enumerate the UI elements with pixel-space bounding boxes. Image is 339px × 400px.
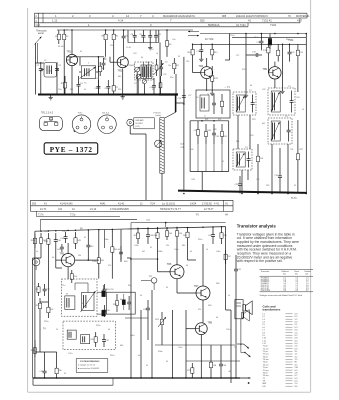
svg-text:05: 05 [140,295,142,297]
svg-text:H4: H4 [225,215,229,217]
svg-text:C28: C28 [213,129,216,131]
svg-text:4: 4 [152,14,154,18]
capacitor C47 [102,334,110,347]
wire [257,144,259,194]
wire [130,126,146,160]
svg-text:0.5: 0.5 [295,316,299,318]
svg-text:04: 04 [118,249,120,251]
svg-text:C3a: C3a [58,89,62,91]
resistor R53b [113,294,118,312]
svg-text:C45a: C45a [174,249,179,251]
svg-text:R4: R4 [104,59,106,61]
svg-text:Telescopic: Telescopic [36,31,48,33]
svg-text:T5 pri: T5 pri [263,366,269,369]
middle parts table frame [31,200,234,216]
svg-text:C30: C30 [296,97,299,99]
wire TR8 emitter [200,335,202,378]
wire TR2 emitter [122,69,124,95]
svg-text:L7: L7 [263,330,266,332]
resistor R59 [34,283,40,296]
wire [88,230,112,254]
wire [246,54,252,56]
svg-text:R55: R55 [36,305,41,307]
trimmer circle [155,140,162,147]
resistor R45 [97,253,105,268]
wire [140,310,142,378]
aerial lead wire [34,43,36,95]
svg-text:C15: C15 [178,98,183,100]
svg-text:C52: C52 [46,289,51,291]
resistor R4 [99,62,106,76]
wire TR5 emitter [67,267,69,279]
svg-text:5005/41A: 5005/41A [208,23,220,27]
model label box PYE-1372 [44,143,97,154]
svg-text:T3 pri: T3 pri [263,355,269,358]
svg-text:C4: C4 [96,78,98,80]
svg-text:C24: C24 [133,53,136,55]
svg-text:C7b: C7b [134,83,137,85]
svg-text:C17: C17 [236,55,239,57]
ground symbol mid [121,95,125,100]
ground symbol right 2 [280,88,284,94]
transformer T5 core [81,335,90,344]
svg-text:Transistor analysis: Transistor analysis [237,224,277,229]
wire [162,310,173,378]
svg-text:(V): (V) [306,273,309,275]
wire TR6 collector [274,62,276,67]
loudspeaker LS2 [242,310,250,322]
svg-text:C9a: C9a [172,39,176,41]
svg-text:R61: R61 [50,309,55,311]
svg-text:04: 04 [52,257,54,259]
svg-text:4 14: 4 14 [118,19,124,23]
screen box ground [148,43,152,50]
svg-text:0.4: 0.4 [295,381,299,383]
socket diagram TO5 label [78,113,83,115]
capacitor C49 [143,300,150,318]
svg-text:8k2: 8k2 [262,123,265,125]
capacitor C19 [252,52,262,58]
diode W1 [103,284,110,296]
svg-text:470: 470 [218,119,221,121]
resistor R8 [165,30,172,57]
svg-text:01: 01 [150,247,152,249]
svg-text:T2 pri: T2 pri [263,350,269,353]
svg-text:920: 920 [200,19,205,23]
svg-text:● voltages see 10 rail: ● voltages see 10 rail [78,364,96,367]
svg-text:SOCKET: SOCKET [135,123,144,125]
transformer T3 secondary core [81,291,96,312]
svg-text:L5a: L5a [168,65,172,67]
oscillator transformer core 2 [147,65,152,79]
svg-text:C42: C42 [194,130,197,132]
svg-text:L4: L4 [263,322,266,324]
svg-text:T2: T2 [249,90,252,92]
svg-text:T2 sec: T2 sec [263,354,269,356]
wire [146,160,162,200]
ground bus extension [159,93,178,95]
svg-text:1a 13,16/11: 1a 13,16/11 [162,202,176,205]
IF transformer T2 can [233,90,256,115]
svg-text:TR6: TR6 [167,263,172,266]
capacitor C51 [234,262,242,278]
volume control VR1 [155,312,166,332]
svg-text:R21: R21 [205,119,208,121]
ground below C16 [199,57,203,62]
svg-text:R54a: R54a [96,325,101,327]
top table row 3 text [35,23,276,27]
svg-text:TR8 OC81D: TR8 OC81D [261,290,271,292]
trimmer C10 [148,30,152,43]
heading Transistor analysis [237,224,277,229]
svg-text:R63: R63 [208,305,211,307]
svg-text:17/30,92: 17/30,92 [202,202,212,205]
svg-text:4k7: 4k7 [138,355,141,357]
svg-text:C10: C10 [150,49,153,51]
svg-text:L2: L2 [263,316,266,318]
svg-text:R15: R15 [192,179,195,181]
thick feed to tuner [175,95,177,113]
resistor R58 [209,358,217,372]
svg-text:L5: L5 [165,62,168,64]
svg-text:C43: C43 [90,246,95,248]
svg-text:TL74: TL74 [291,197,297,200]
page left edge [27,8,29,392]
wire TR1 emitter [71,66,73,95]
wire [56,248,62,268]
wire TR1 collector [71,30,73,54]
wire [127,258,131,378]
transistor TR2 [117,57,128,73]
resistor R12 [211,66,219,91]
capacitor C21 [235,176,243,194]
capacitor C42 [57,244,64,252]
svg-text:T6: T6 [207,94,209,96]
oscillator dashed enclosure [135,62,154,80]
label TL74 [291,197,297,200]
feed wire upper [41,219,138,231]
wire [35,62,44,64]
svg-text:L6: L6 [263,327,266,329]
svg-text:L1: L1 [263,314,266,316]
aerial arrow [35,37,42,45]
capacitor C41 [61,232,68,243]
jack plug symbol [234,343,249,348]
transformer T3 core [65,293,75,309]
capacitor C16 [197,44,204,57]
capacitor C2 [55,62,62,77]
svg-text:(L12): (L12) [135,126,140,128]
socket diagram 2 label [102,112,110,115]
svg-text:R23: R23 [252,119,255,121]
svg-text:T8: T8 [263,381,266,383]
svg-text:05: 05 [152,89,154,91]
svg-text:R16: R16 [260,158,265,160]
svg-text:TR5: TR5 [60,253,65,256]
detector feed wire [190,120,229,122]
wire [279,148,281,160]
wire TR6 emitter [274,79,276,88]
supply rail 9V [35,227,226,232]
svg-text:R66: R66 [216,283,219,285]
svg-text:← T1: ← T1 [224,86,230,89]
svg-text:0.7: 0.7 [295,375,299,377]
wire [137,72,144,95]
svg-text:T5: T5 [245,147,248,149]
svg-text:C50: C50 [222,365,227,367]
svg-text:T3: T3 [288,86,291,88]
component value labels top schematic [44,30,304,187]
svg-text:J41: J41 [58,208,63,211]
svg-text:7/24: 7/24 [150,202,155,205]
svg-text:C11: C11 [158,34,162,36]
svg-text:← T4: ← T4 [40,329,46,331]
jack plug symbol 2 [241,344,251,357]
svg-text:3.2: 3.2 [295,364,299,366]
coil resistance list [263,314,299,388]
svg-text:41: 41 [72,208,75,211]
resistor R43 [74,232,82,249]
ground symbol TR3 [210,91,214,96]
svg-text:T1 sec: T1 sec [263,348,269,350]
svg-text:4: 4 [35,20,37,23]
capacitor C20a [212,124,219,144]
wire TR6b emitter [176,279,178,286]
svg-text:680: 680 [118,76,121,78]
svg-text:T17p: T17p [70,215,76,217]
IF transformer T5 can [233,147,252,170]
svg-text:4 13: 4 13 [35,24,40,27]
module box [196,90,230,118]
svg-text:2: 2 [72,14,74,18]
svg-text:MAGNADUR 2A2A/3A3A/7A: MAGNADUR 2A2A/3A3A/7A [163,15,195,18]
middle table row 1 text [32,202,229,205]
svg-text:05: 05 [166,361,168,363]
svg-text:R24: R24 [250,135,253,137]
svg-text:R34: R34 [113,304,116,306]
wire [183,57,185,141]
svg-text:R11: R11 [214,52,219,54]
svg-text:3.5: 3.5 [295,340,299,342]
svg-text:U: U [204,116,206,118]
svg-text:C41a: C41a [62,231,67,233]
svg-text:05: 05 [190,251,192,253]
wire [183,141,185,192]
svg-text:4.2: 4.2 [295,356,299,358]
svg-text:0.4: 0.4 [295,343,299,345]
wire [235,255,237,378]
svg-text:R44: R44 [73,276,78,278]
page right edge [310,0,312,392]
AF output bus [178,191,307,193]
svg-text:C32: C32 [256,179,259,181]
svg-text:R59: R59 [34,289,39,291]
IF transformer T1 [79,66,98,85]
svg-text:1: 1 [88,23,90,27]
svg-text:22k: 22k [110,45,113,47]
capacitor C7 [105,80,111,95]
page bottom edge [28,391,311,393]
resistor R20 [221,124,227,144]
top parts table frame [35,13,308,27]
socket diagram 2 [98,115,117,134]
svg-text:680: 680 [236,141,239,143]
svg-text:4: 4 [35,15,37,18]
svg-text:22k: 22k [166,245,169,247]
svg-text:C50a: C50a [178,347,183,349]
transformer T4 core [67,330,76,339]
capacitor C43 [86,240,94,252]
resistor R17 [296,120,304,194]
svg-text:T17A: T17A [38,214,44,217]
ground symbol right 1 [244,92,248,98]
svg-text:0.4: 0.4 [295,322,299,324]
svg-text:R6: R6 [115,36,119,38]
svg-text:transformers: transformers [263,308,281,312]
svg-text:R8: R8 [169,44,173,46]
svg-text:0.9: 0.9 [295,370,299,372]
coupling loop wire [75,283,88,293]
svg-text:680: 680 [70,89,73,91]
wire TR6b collector [176,240,178,265]
svg-text:L9: L9 [263,335,266,337]
svg-text:e: e [81,118,82,120]
svg-text:01: 01 [84,89,86,91]
transistor base outline diagram [40,117,63,131]
wire [165,74,184,118]
svg-text:70: 70 [288,15,291,18]
wire [151,290,153,378]
svg-text:0.6: 0.6 [295,330,299,332]
svg-text:0.8: 0.8 [295,338,299,340]
top supply rail [57,29,193,31]
svg-text:TP2: TP2 [149,276,154,278]
wire TR6b base [158,244,171,272]
resistor R61 [47,302,55,318]
transistor TR1 [66,51,77,66]
svg-text:C47a: C47a [68,353,73,355]
svg-text:1: 1 [88,63,89,65]
svg-text:Transistor: Transistor [261,270,270,273]
wire TR7 collector [202,244,204,286]
svg-text:05: 05 [270,39,272,41]
analysis paragraph [237,232,299,263]
svg-text:PCB 1D: PCB 1D [154,113,162,115]
svg-text:R54: R54 [91,339,96,341]
svg-text:41: 41 [44,202,47,205]
jack socket J1 [32,258,40,270]
diode W3 bias [122,294,125,310]
capacitor C18 [257,34,264,51]
svg-text:R52: R52 [227,256,232,258]
horizontal wire [125,317,148,319]
base feed wire [130,258,158,260]
middle table row 3 text [38,214,229,217]
capacitor C3 [77,76,84,95]
svg-text:T4 pri: T4 pri [263,361,269,364]
capacitor C1 [37,62,43,77]
variable capacitor C13 [136,74,142,79]
top rail right segment [200,33,306,35]
svg-text:T4: T4 [285,116,288,118]
svg-text:41/41/4140: 41/41/4140 [60,202,73,205]
resistor R2 [63,30,69,44]
wire [35,248,41,258]
svg-text:H1: H1 [225,203,229,205]
svg-text:aerial: aerial [38,32,44,35]
svg-text:04: 04 [250,85,252,87]
wire [106,44,114,82]
svg-text:R42: R42 [44,241,49,243]
svg-text:4k7: 4k7 [142,251,145,253]
svg-text:C31: C31 [290,149,293,151]
wire [97,57,99,95]
svg-text:C2: C2 [58,65,62,67]
svg-text:■ measured on 20,000Ω/V: ■ measured on 20,000Ω/V [78,368,100,370]
svg-text:LW: LW [263,386,266,388]
svg-text:R26: R26 [190,149,193,151]
resistor R52 [224,250,232,264]
svg-text:01: 01 [80,51,82,53]
resistor R48 [153,227,159,244]
resistor R5 [102,30,108,44]
svg-text:TO5: TO5 [78,113,83,115]
wire [99,256,113,279]
svg-text:R9a: R9a [170,77,174,79]
svg-text:680: 680 [182,245,185,247]
resistor R54 [91,332,98,347]
resistor R41 [39,233,47,248]
svg-text:C20: C20 [291,52,296,54]
svg-text:01: 01 [222,161,224,163]
svg-text:VR1: VR1 [155,319,160,321]
resistor R56 [55,364,63,378]
svg-text:2.4: 2.4 [295,383,299,385]
svg-text:R5: R5 [102,36,106,38]
car aerial socket [127,118,155,129]
transistor base diagram label [41,113,54,115]
resistor R9 [173,58,180,74]
svg-text:C5 01: C5 01 [126,47,131,49]
svg-text:T1 pri: T1 pri [263,345,269,348]
svg-text:14/24: 14/24 [190,202,197,205]
svg-text:3.1: 3.1 [295,351,299,353]
svg-text:R7a: R7a [118,89,122,91]
loudspeaker LS1 [243,301,252,315]
svg-text:R58a: R58a [158,351,163,353]
svg-text:R15: R15 [299,52,304,54]
svg-text:1k: 1k [228,295,230,297]
wire TR5 base [56,259,62,261]
svg-text:04: 04 [108,329,110,331]
wire [47,250,49,283]
svg-text:680: 680 [120,345,123,347]
svg-text:C41: C41 [180,147,183,149]
top table row 1 text [35,14,310,18]
svg-text:42 7131: 42 7131 [205,38,214,41]
wire [41,77,57,95]
resistor R14 [277,44,280,61]
capacitor C46 [103,305,110,317]
svg-text:04: 04 [120,299,122,301]
svg-text:47: 47 [66,30,68,32]
resistor R62 [183,227,189,243]
svg-text:c: c [55,121,56,123]
svg-text:C25: C25 [146,62,149,64]
svg-text:120: 120 [186,61,189,63]
svg-text:VOLTAGE READINGS: VOLTAGE READINGS [80,360,100,363]
svg-text:C40: C40 [57,240,62,242]
